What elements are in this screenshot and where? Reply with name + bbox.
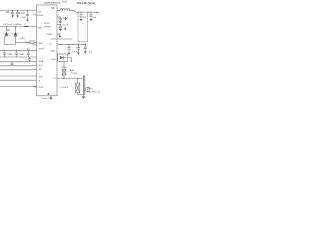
svg-text:U6: U6 (51, 7, 55, 10)
svg-text:PvE: PvE (33, 87, 37, 89)
svg-text:4.7uF: 4.7uF (63, 25, 69, 27)
svg-text:D: D (18, 33, 20, 35)
svg-text:RESN: RESN (44, 27, 50, 29)
svg-text:4.7uF: 4.7uF (72, 52, 78, 54)
svg-text:1uF: 1uF (22, 17, 26, 19)
svg-text:INT: INT (39, 69, 43, 71)
svg-text:PT: PT (49, 44, 52, 46)
svg-text:DAT: DAT (50, 50, 55, 53)
svg-text:SCL: SCL (39, 65, 44, 67)
svg-text:BAT: BAT (39, 42, 44, 45)
svg-text:B0B: B0B (70, 70, 75, 72)
svg-text:SDA: SDA (39, 60, 44, 63)
svg-text:TAB1: TAB1 (7, 53, 13, 56)
svg-text:0/1: 0/1 (7, 29, 11, 32)
svg-text:BOOT: BOOT (44, 23, 51, 25)
svg-text:1(3k): 1(3k) (20, 38, 25, 40)
svg-text:B: B (39, 80, 41, 82)
svg-text:X 2k4 S: X 2k4 S (61, 87, 69, 89)
svg-text:Y301: Y301 (88, 88, 94, 90)
svg-text:S: S (3, 33, 5, 35)
svg-text:COM: COM (50, 59, 55, 61)
svg-text:STBT: STBT (39, 48, 45, 50)
svg-text:0.1: 0.1 (27, 49, 30, 51)
svg-text:D: D (9, 33, 11, 35)
svg-text:Snap Exten 211: Snap Exten 211 (87, 91, 100, 94)
svg-text:1uF: 1uF (83, 17, 87, 19)
svg-text:1uH: 1uH (62, 1, 67, 3)
svg-text:4.7uF: 4.7uF (63, 18, 69, 20)
svg-text:+1.2: +1.2 (88, 52, 93, 54)
svg-text:R50k: R50k (62, 67, 68, 69)
svg-text:T(3W): T(3W) (71, 73, 77, 75)
svg-text:DTE: DTE (32, 45, 37, 47)
svg-text:TX: TX (53, 78, 56, 80)
svg-text:3.3V(out) 1.5A Max: 3.3V(out) 1.5A Max (3, 23, 23, 26)
svg-text:kejZHC09(2arm): kejZHC09(2arm) (44, 1, 60, 4)
svg-text:Power Tree: Power Tree (41, 97, 53, 100)
svg-text:1uF: 1uF (6, 11, 11, 14)
svg-text:1.8K: 1.8K (25, 42, 30, 44)
svg-text:PVE: PVE (39, 87, 44, 89)
svg-text:PGND: PGND (37, 15, 44, 17)
svg-text:1uF: 1uF (93, 17, 97, 19)
svg-text:GLD: GLD (37, 11, 42, 13)
svg-text:D/S 3.8v (Vsys): D/S 3.8v (Vsys) (77, 1, 95, 5)
svg-text:4.2uF: 4.2uF (19, 12, 26, 15)
svg-text:LAB: LAB (37, 27, 42, 30)
svg-text:S: S (12, 33, 14, 35)
svg-text:TAB2: TAB2 (19, 53, 25, 56)
svg-text:PGND: PGND (46, 34, 53, 36)
svg-text:STB: STB (39, 76, 44, 78)
